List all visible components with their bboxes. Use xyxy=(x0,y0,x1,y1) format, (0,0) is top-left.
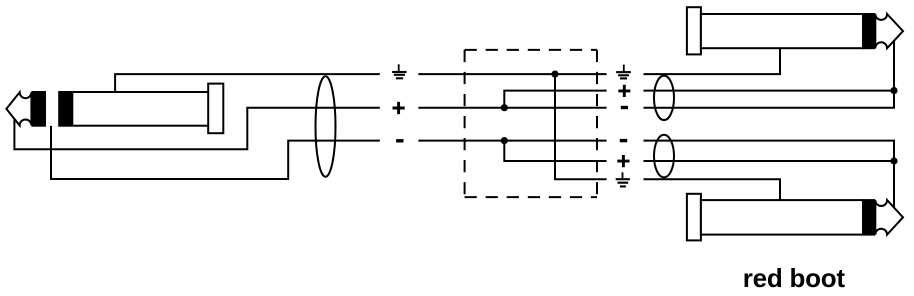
TS mono plug upper-right: collar xyxy=(687,7,701,54)
ground symbol right-lower (line y=179.2) xyxy=(616,172,630,187)
wire: ground branch down to lower plug sleeve, y=179.2 xyxy=(555,74,780,201)
minus symbol right-lower (line y=140.6) xyxy=(620,139,627,142)
TRS stereo plug left: tip xyxy=(6,92,31,125)
wire: ground from TRS sleeve barrel, line y=74.1, to upper plug sleeve xyxy=(115,47,780,92)
plus symbol right-lower (line y=161) xyxy=(617,155,629,167)
TS plug lower: sleeve barrel xyxy=(701,200,863,235)
wire: + branch jog to lower plug, y=161 xyxy=(504,141,894,161)
wire: cold - from TRS ring, down x=51, along y=179, up x=288.2, line y=140.6 to lower plug tip xyxy=(51,126,894,209)
plus symbol left (line y=107.7) xyxy=(393,102,405,114)
TS plug upper: tip xyxy=(875,14,903,48)
junction dashed box xyxy=(465,50,597,197)
TRS plug left: ring band xyxy=(58,91,72,127)
svg-text:red boot: red boot xyxy=(743,263,846,293)
cable ellipse right-lower xyxy=(654,135,674,178)
minus symbol left (line y=140.6) xyxy=(396,139,403,142)
junction dot: lower plug tip node xyxy=(890,157,897,164)
ground symbol left (on line y=74.1) xyxy=(392,64,407,79)
junction dot: lower line to lower + branch xyxy=(501,137,508,144)
wire: + branch jog to upper plug, y=90.6 xyxy=(504,91,894,108)
wire: hot + from TRS tip, down x=14.4, along y=149.2, up x=247.3, line y=107.7 to upper plug tip xyxy=(14,40,894,149)
TRS plug left: tip insulator band xyxy=(31,91,46,127)
cable ellipse right-upper xyxy=(654,76,674,121)
TS plug upper: sleeve barrel xyxy=(701,14,863,48)
cable ellipse left xyxy=(316,76,336,176)
plus symbol right-upper (line y=90.6) xyxy=(618,85,630,97)
minus symbol right-upper (line y=107.7) xyxy=(621,106,628,109)
junction dot: ground to lower ground branch xyxy=(551,71,558,78)
TS mono plug lower-right: collar xyxy=(687,194,701,241)
TS plug upper: insulator band xyxy=(863,13,876,49)
junction dot: upper plug tip node xyxy=(890,87,897,94)
TRS plug left: sleeve barrel xyxy=(72,92,210,126)
junction dot: mid line to upper + branch xyxy=(501,104,508,111)
ground symbol right-upper (line y=74.1) xyxy=(616,65,631,80)
TRS plug left: collar xyxy=(208,84,223,134)
TS plug lower: insulator band xyxy=(863,199,876,236)
TS plug lower: tip xyxy=(875,200,903,235)
